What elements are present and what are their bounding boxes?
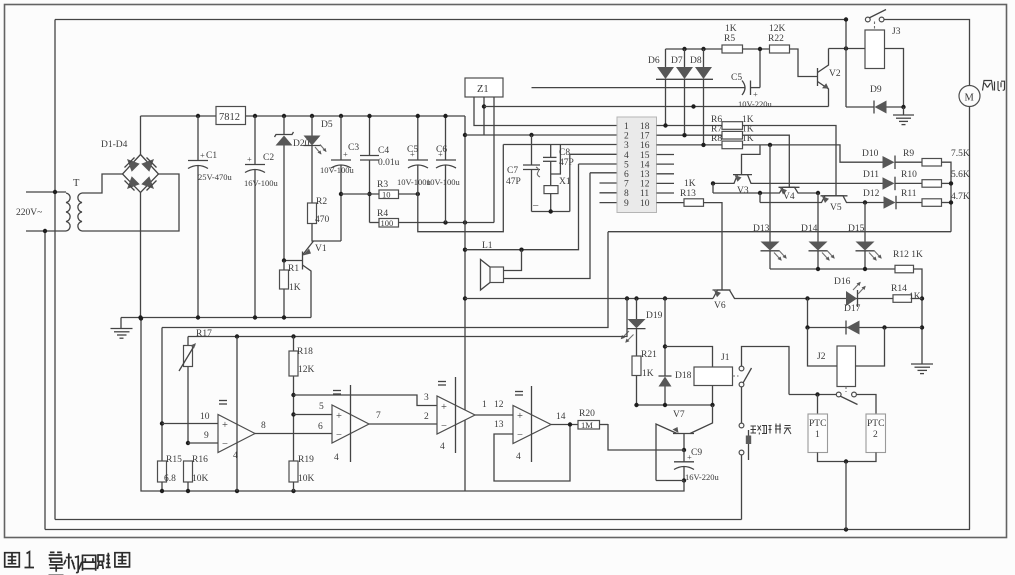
svg-text:10V-100u: 10V-100u — [320, 165, 354, 175]
svg-text:PTC: PTC — [867, 419, 884, 429]
wire: pin14 stub right — [657, 163, 675, 165]
node: C6 top junction — [443, 114, 447, 118]
node: PTC1 top junction — [815, 392, 819, 396]
node: C5 top junction — [416, 114, 420, 118]
svg-text:J1: J1 — [721, 353, 730, 363]
node: spine junction with row2 line — [463, 133, 467, 137]
thyristor V4 — [713, 187, 818, 194]
node: D6 junction on pin18 row — [663, 123, 667, 127]
wire: J1 coil top feed — [665, 347, 713, 368]
node: R3/C5 junction — [416, 192, 420, 196]
wire: V7 base lead — [683, 434, 685, 451]
svg-text:5: 5 — [624, 160, 629, 170]
wire: op3 output to op4 — [475, 414, 513, 416]
wire: PTC1 riser — [817, 395, 819, 415]
regulator 7812 — [216, 107, 246, 125]
IC U1 body — [617, 117, 657, 213]
svg-text:12K: 12K — [298, 365, 315, 375]
node: divider junction to op2 — [291, 412, 295, 416]
node: spine junction with comparator supply rail — [463, 296, 467, 300]
svg-text:18: 18 — [640, 122, 650, 132]
wire: PTC bottoms to common — [818, 453, 877, 462]
svg-text:6: 6 — [624, 170, 629, 180]
wire: op2 +input — [294, 414, 333, 416]
node: D15 cathode junction — [863, 267, 867, 271]
wire: J2 switch to PTC2 — [856, 395, 876, 415]
LED D16 — [846, 282, 866, 307]
node: D8 to pin16 row — [701, 143, 705, 147]
svg-text:−: − — [517, 430, 523, 441]
resistor R2 — [308, 203, 317, 224]
resistor R16 — [184, 461, 193, 482]
svg-text:10V-220u: 10V-220u — [738, 99, 772, 109]
wire: main +rail y=116 from bridge to 7812 and on to right corner — [141, 115, 217, 117]
node: C4/R3 junction — [367, 192, 371, 196]
diode D10 — [883, 156, 923, 170]
svg-text:+: + — [336, 411, 342, 422]
svg-text:R12 1K: R12 1K — [893, 250, 923, 260]
svg-text:D18: D18 — [675, 371, 692, 381]
node: divider junction to op3 — [291, 393, 295, 397]
svg-text:470: 470 — [315, 215, 330, 225]
wire: line y=337 from R17 to supply rail — [188, 299, 627, 337]
capacitor C1 electrolytic — [188, 116, 208, 318]
wire: R2 to V1 emitter node line y=241 — [312, 224, 341, 242]
svg-text:4: 4 — [334, 453, 339, 463]
node: D18 top junction — [663, 296, 667, 300]
wire: row5 line to speaker L1 top riser — [579, 163, 618, 165]
capacitor C5' 10V-220u — [742, 81, 760, 100]
wire: C3 bottom to node y=241 — [340, 165, 342, 241]
op-amp U2B — [332, 385, 369, 462]
svg-text:2: 2 — [424, 412, 429, 422]
svg-text:R22: R22 — [768, 34, 784, 44]
transistor V2 — [818, 49, 829, 107]
wire: row9 stub — [600, 202, 618, 204]
LED D5 — [304, 116, 327, 155]
node: C1 top junction — [196, 114, 200, 118]
svg-text:4: 4 — [233, 451, 238, 461]
svg-text:R4: R4 — [377, 209, 388, 219]
svg-text:D1-D4: D1-D4 — [101, 140, 128, 150]
wire: D20 node to R1 — [283, 261, 285, 271]
node: C2 bottom on ground rail — [253, 315, 257, 319]
wire: C5' to R5/R22 node — [759, 49, 761, 88]
svg-text:9: 9 — [204, 431, 209, 441]
svg-text:47P: 47P — [506, 177, 521, 187]
wire: R15 bottom to analog rail — [161, 482, 163, 491]
svg-text:10K: 10K — [192, 474, 209, 484]
node: J2 right junction — [882, 325, 886, 329]
svg-text:10K: 10K — [298, 474, 315, 484]
wire: J2 coil left feed — [808, 328, 838, 367]
svg-text:D17: D17 — [844, 304, 861, 314]
thermal switch (re min kai guan) — [739, 423, 751, 460]
resistor R18 — [289, 351, 298, 376]
wire: row6 line to speaker L1 bottom riser — [590, 172, 617, 174]
caption: figure 1 whole machine circuit diagram — [5, 552, 130, 575]
svg-text:R19: R19 — [298, 455, 314, 465]
svg-text:Z1: Z1 — [477, 84, 489, 95]
crystal block: C7 — [523, 135, 540, 212]
svg-text:+: + — [222, 420, 228, 431]
node: op1 +in junction — [160, 421, 164, 425]
svg-text:D20: D20 — [293, 139, 310, 149]
wire: comparator output to V7 base — [608, 424, 684, 450]
wire: R21 bottom to J1 coil line — [636, 376, 638, 406]
transformer T secondary winding — [78, 193, 82, 231]
svg-text:2: 2 — [873, 430, 878, 440]
svg-text:1K: 1K — [909, 292, 921, 302]
svg-text:−: − — [336, 430, 342, 441]
svg-text:L1: L1 — [482, 241, 493, 251]
wire: V2 collector line to J3 — [829, 48, 866, 50]
wire: op2 output to op3 — [369, 423, 437, 425]
node: op1 spine junction on 337 — [235, 334, 239, 338]
node: D7 top — [682, 47, 686, 51]
wire: vertical spine x=465 from +rail down to analog ground rail — [464, 116, 466, 491]
wire: pin18 row to R6 — [657, 125, 723, 127]
wire: R11 out — [942, 202, 952, 204]
diode D6 — [656, 49, 676, 126]
svg-text:7.5K: 7.5K — [951, 149, 970, 159]
wire: riser to D14 — [817, 193, 819, 242]
wire: R5 to R22 — [743, 48, 770, 50]
node: R5/R22/C5' junction — [758, 47, 762, 51]
svg-text:C9: C9 — [691, 448, 702, 458]
resistor R22 — [770, 45, 790, 53]
wire: R3 input line — [341, 193, 379, 195]
wire: analog ground rail y=491 — [141, 319, 684, 492]
wire: top mains rail from left vertical to switch J3 — [55, 19, 846, 21]
svg-text:10V-100u: 10V-100u — [426, 177, 460, 187]
svg-text:V6: V6 — [714, 301, 726, 311]
wire: top rail from J3 switch to motor rail — [884, 20, 970, 86]
svg-text:100: 100 — [381, 218, 394, 228]
node: D14 feeder junction — [816, 191, 820, 195]
svg-text:J3: J3 — [892, 27, 901, 37]
svg-text:D15: D15 — [848, 224, 865, 234]
resistor R19 — [289, 461, 298, 482]
block Z1 — [465, 78, 503, 97]
svg-text:V2: V2 — [829, 69, 841, 79]
svg-text:D7: D7 — [671, 56, 683, 66]
LED D13 — [761, 242, 787, 270]
node: V465 crossing junction — [463, 220, 467, 224]
op-amp U2A — [218, 337, 255, 492]
node: R18 top junction on 337 — [291, 334, 295, 338]
svg-text:D14: D14 — [801, 224, 818, 234]
node: D20 top junction — [282, 114, 286, 118]
svg-text:R17: R17 — [196, 329, 212, 339]
svg-text:5: 5 — [319, 402, 324, 412]
wire: PTC feed line y=394.5 — [789, 394, 836, 396]
svg-text:D11: D11 — [863, 170, 879, 180]
node: junction lower stub to mains N — [43, 229, 47, 233]
svg-text:8: 8 — [261, 421, 266, 431]
wire: R1 to ground rail — [283, 289, 285, 318]
svg-text:1K: 1K — [684, 179, 696, 189]
node: op4 output junction — [568, 422, 572, 426]
wire: C5 bottom corner to bus y=231.7 — [418, 145, 504, 232]
node: lineB jog junction — [758, 191, 762, 195]
svg-text:2: 2 — [624, 132, 629, 142]
svg-text:+: + — [200, 150, 205, 160]
wire: J1 coil bottom to node line — [712, 386, 714, 406]
wire: Z1 left leg to IC pin1 row — [474, 97, 617, 126]
wire: op4 feedback loop — [494, 425, 570, 482]
svg-text:6: 6 — [318, 422, 323, 432]
svg-text:R9: R9 — [903, 149, 914, 159]
node: R21 bottom junction — [634, 403, 638, 407]
switch of relay J1 — [739, 366, 751, 387]
wire: op1 output to op2 — [255, 433, 332, 435]
resistor R20 with value 1M inside — [578, 420, 600, 430]
svg-text:17: 17 — [640, 132, 650, 142]
wire: PTC common down to bottom bus — [845, 462, 847, 530]
LED D14 — [809, 242, 835, 270]
svg-text:+: + — [753, 89, 758, 99]
wire: jog down from lineB to lineC — [759, 193, 761, 203]
transformer T primary winding — [66, 193, 70, 231]
zener diode D20 — [275, 116, 294, 261]
wire: vertical from top rail to D9 anode — [845, 20, 847, 108]
node: D14 cathode junction — [816, 267, 820, 271]
wire: speed resistor common vertical x=951 — [942, 162, 952, 232]
node: V7 base / C9 top junction — [682, 448, 686, 452]
resistor R3 with value 10 inside — [379, 190, 399, 200]
wire: secondary top lead to bridge left corner — [82, 174, 123, 193]
svg-text:R1: R1 — [288, 264, 299, 274]
svg-text:D5: D5 — [321, 120, 333, 130]
LED D19 — [621, 299, 646, 357]
svg-text:5.6K: 5.6K — [951, 170, 970, 180]
svg-text:220V~: 220V~ — [16, 208, 42, 218]
node: V1 base / R1 junction — [282, 258, 286, 262]
svg-text:25V-470u: 25V-470u — [198, 172, 232, 182]
svg-text:1M: 1M — [581, 420, 593, 430]
node: R15 on analog rail — [160, 489, 164, 493]
svg-text:7812: 7812 — [219, 112, 240, 123]
wire: V7 emitter line to C9 bottom — [656, 480, 684, 482]
node: C3 top junction — [339, 114, 343, 118]
wire: Z1 right leg down to R4 rail — [493, 97, 495, 223]
wire: J3 right side down to ground — [885, 49, 904, 108]
svg-text:C5: C5 — [731, 73, 742, 83]
diode D9 — [846, 101, 904, 114]
wire: row2 line y=135 from spine to IC pin2 — [465, 134, 617, 136]
svg-text:7: 7 — [376, 411, 381, 421]
resistor R1 — [280, 270, 289, 289]
node: comparator feed junction — [625, 296, 629, 300]
svg-text:11: 11 — [640, 189, 649, 199]
node: J3 feed junction — [844, 46, 848, 50]
wire: V3 gate jog from R8 line — [742, 145, 761, 175]
svg-text:1K: 1K — [742, 115, 754, 125]
wire: ground rail y=317.5 — [121, 317, 311, 319]
ground symbol at D9 — [893, 107, 914, 125]
resistor R14 — [893, 295, 912, 303]
wire: Z1 middle leg — [483, 97, 485, 135]
wire: thermal switch return rail y=519.5 — [55, 519, 742, 521]
wire: D18 feeder vertical — [664, 299, 666, 377]
svg-text:15: 15 — [640, 151, 650, 161]
wire: pin13 stub right — [657, 173, 675, 175]
diode D7 — [676, 49, 695, 135]
svg-text:C4: C4 — [378, 146, 389, 156]
wire: R16 bottom to analog rail — [187, 482, 189, 491]
svg-text:1: 1 — [624, 122, 629, 132]
svg-text:V3: V3 — [737, 186, 749, 196]
svg-text:C2: C2 — [263, 153, 274, 163]
svg-text:R20: R20 — [579, 409, 595, 419]
wire: motor rail down to bottom bus — [969, 107, 971, 530]
svg-text:D16: D16 — [834, 277, 851, 287]
diode D12 — [884, 196, 923, 210]
wire: R15 branch from 327 corner — [161, 328, 163, 462]
svg-text:R11: R11 — [901, 189, 917, 199]
svg-text:R3: R3 — [377, 180, 388, 190]
resistor R15 — [158, 461, 167, 482]
wire: bottom mains bus y=529.5 to motor rail — [45, 529, 970, 531]
node: crystal bottom junction — [549, 209, 553, 213]
svg-text:7: 7 — [624, 180, 629, 190]
svg-text:14: 14 — [640, 160, 650, 170]
node: ground rail top junction — [139, 316, 143, 320]
wire: V2 emitter line y=106.5 — [484, 106, 829, 108]
svg-text:+: + — [247, 154, 252, 164]
wire: pin16 row to R8 — [657, 144, 723, 146]
svg-text:13: 13 — [640, 170, 650, 180]
svg-text:3: 3 — [424, 393, 429, 403]
svg-text:C6: C6 — [436, 145, 447, 155]
capacitor C3 electrolytic — [331, 116, 351, 168]
diode D18 — [659, 376, 672, 405]
svg-text:D9: D9 — [870, 85, 882, 95]
node: junction PTC return on bottom bus — [844, 527, 848, 531]
wire: R8 output line to D10 — [743, 145, 884, 162]
svg-text:+: + — [441, 402, 447, 413]
crystal block: C8 — [543, 145, 560, 175]
ground symbol right — [911, 364, 933, 374]
relay coil J2 — [837, 346, 856, 392]
svg-text:R5: R5 — [724, 34, 735, 44]
wire: diode bus y=49 from D6 to R5 — [666, 48, 723, 50]
svg-text:14: 14 — [556, 412, 566, 422]
svg-text:R18: R18 — [297, 347, 313, 357]
node: D17 branch junction — [805, 296, 809, 300]
ground symbol main — [111, 318, 133, 339]
svg-text:C7: C7 — [507, 166, 518, 176]
crystal X1 — [544, 174, 558, 212]
wire: R18 chain vertical — [293, 337, 295, 462]
wire: R14 out — [912, 298, 923, 300]
wire: R4 output rail y=222.5 to Z1 leg — [399, 222, 495, 224]
node: D19 top junction — [634, 296, 638, 300]
wire: riser to D15 — [864, 203, 866, 242]
svg-text:C8: C8 — [559, 148, 570, 158]
wire: R12 out to x=922 vertical — [914, 269, 923, 364]
wire: R3 output to C5 node — [399, 193, 418, 195]
resistor R8 — [722, 141, 743, 149]
resistor R12 — [895, 265, 914, 273]
node: R11 junction — [949, 200, 953, 204]
resistor R21 — [632, 356, 641, 376]
wire: relay drive node line y=405 — [637, 404, 713, 406]
svg-text:3: 3 — [624, 141, 629, 151]
transistor V1 — [284, 241, 314, 318]
node: line A left junction — [711, 181, 715, 185]
speaker L1 — [481, 173, 591, 290]
node: PTC common junction — [844, 459, 848, 463]
svg-text:C5: C5 — [407, 145, 418, 155]
wire: thermal switch to return rail — [741, 455, 743, 520]
wire: left mains vertical N (x=45) down to bottom mains bus — [44, 231, 46, 530]
wire: D17 line y=327.5 — [808, 327, 922, 329]
svg-text:R21: R21 — [641, 350, 657, 360]
node: op1 -in junction — [186, 441, 190, 445]
node: bridge bottom on ground rail — [138, 315, 142, 319]
wire: J1 switch bottom to thermal switch — [741, 387, 743, 423]
svg-text:R14: R14 — [891, 284, 907, 294]
node: junction upper stub to mains L — [53, 190, 57, 194]
wire: R20 output to V7 base line — [600, 424, 609, 426]
node: D15 feeder junction — [863, 200, 867, 204]
wire: op1 +input — [162, 423, 218, 425]
svg-text:D13: D13 — [753, 224, 770, 234]
wire: row8 stub — [600, 192, 618, 194]
capacitor C4 — [360, 116, 379, 223]
thyristor V3 — [713, 175, 883, 184]
resistor R11 — [922, 199, 942, 207]
svg-text:V4: V4 — [783, 192, 795, 202]
node: R19 on analog rail — [291, 489, 295, 493]
svg-text:4.7K: 4.7K — [951, 192, 970, 202]
node: R16 on analog rail — [186, 489, 190, 493]
node: D7 to pin17 row — [682, 133, 686, 137]
node: spine junction with L1 line — [463, 248, 467, 252]
svg-text:R7: R7 — [711, 125, 722, 135]
wire: crystal right vertical to row3 — [503, 144, 617, 146]
wire: R13 output to V6 gate — [704, 203, 723, 290]
relay coil J1 — [694, 367, 739, 386]
resistor R4 with value 100 inside — [379, 218, 399, 228]
wire: op1 -input — [188, 442, 218, 444]
wire: pin12 stub right — [657, 182, 675, 184]
svg-text:R10: R10 — [901, 170, 917, 180]
heater PTC2 — [866, 414, 886, 453]
wire: C5' coupling line y=87.6 from crystal branch to capacitor — [532, 87, 745, 89]
wire: R7 output to V4 gate riser — [743, 135, 790, 187]
wire: row7 stub — [600, 182, 618, 184]
node: R10 junction — [949, 181, 953, 185]
resistor R13 — [684, 199, 704, 207]
LED D15 — [856, 242, 882, 270]
svg-text:R13: R13 — [680, 189, 696, 199]
switch of relay J3 — [865, 10, 886, 22]
wire: line y=327.5 from left corner to R9 bus riser — [162, 232, 608, 328]
svg-text:−: − — [222, 439, 228, 450]
wire: riser to D13 — [769, 145, 771, 242]
resistor R7 — [722, 131, 743, 139]
node: D8 top — [701, 47, 705, 51]
svg-text:M: M — [965, 93, 975, 104]
diode D17 — [846, 321, 860, 335]
diode D8 — [695, 49, 714, 145]
variable resistor R17 thermistor — [179, 337, 196, 444]
wire: J1 switch top to PTC feed — [742, 347, 790, 395]
wire: bridge + output up to +rail — [140, 116, 142, 155]
